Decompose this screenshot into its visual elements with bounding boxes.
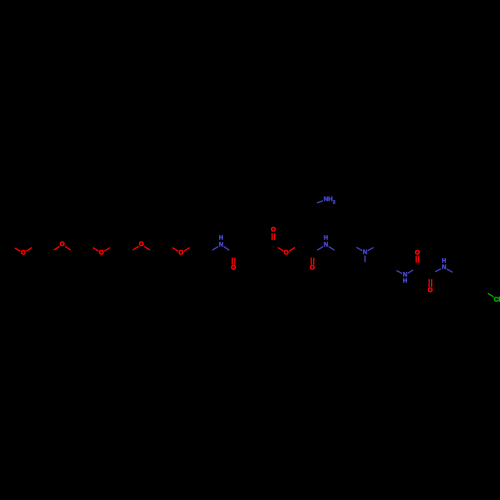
svg-text:O: O (21, 250, 26, 257)
svg-text:O: O (60, 241, 65, 248)
svg-text:N: N (442, 264, 447, 271)
svg-text:O: O (139, 241, 144, 248)
svg-text:O: O (179, 250, 184, 257)
svg-text:O: O (271, 226, 276, 233)
svg-text:H: H (442, 257, 446, 264)
svg-text:2: 2 (333, 199, 336, 204)
svg-text:O: O (428, 287, 433, 294)
svg-text:O: O (310, 265, 315, 272)
svg-text:H: H (324, 235, 328, 242)
svg-text:N: N (363, 249, 368, 256)
svg-text:N: N (324, 241, 329, 248)
svg-text:N: N (219, 241, 224, 248)
svg-text:O: O (231, 265, 236, 272)
svg-text:O: O (284, 249, 289, 256)
svg-text:Cl: Cl (494, 297, 500, 304)
svg-text:O: O (99, 250, 104, 257)
svg-text:H: H (219, 235, 223, 242)
svg-text:O: O (415, 249, 420, 256)
svg-text:H: H (403, 277, 407, 284)
